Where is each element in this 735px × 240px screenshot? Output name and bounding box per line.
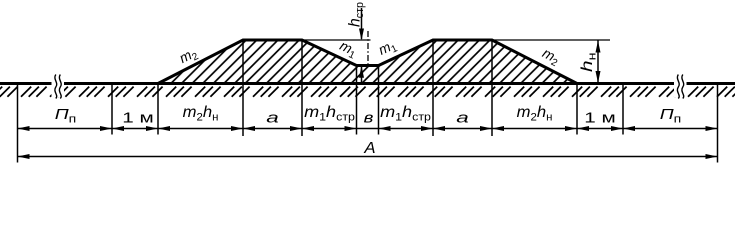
break symbol right — [674, 74, 687, 99]
label Pp left — [55, 105, 77, 125]
extension line tick m1hstr/a right — [432, 40, 434, 136]
embankment profile outline — [158, 40, 577, 84]
svg-text:1 м: 1 м — [122, 109, 153, 126]
svg-text:в: в — [364, 109, 374, 126]
label a left — [266, 110, 279, 126]
dimension line row 1 — [18, 128, 718, 130]
label m2hn right — [517, 103, 553, 123]
extension line tick notch left — [356, 66, 358, 135]
extension line tick notch right — [378, 66, 380, 135]
crest reference line left — [302, 39, 371, 41]
extension line tick crest left — [242, 40, 244, 136]
centerline dash-dot — [367, 31, 369, 67]
label m1hstr right — [380, 103, 431, 123]
label A — [363, 139, 375, 157]
label 1 m right — [584, 109, 615, 126]
ground line — [0, 82, 735, 85]
notch bottom up arrow — [359, 66, 364, 83]
ground hatching — [0, 87, 735, 97]
break symbol left — [52, 74, 65, 99]
svg-text:А: А — [363, 139, 375, 157]
extension line tick toe right — [576, 84, 578, 135]
h_str dimension arrow — [359, 8, 364, 41]
label 1 m left — [122, 109, 153, 126]
svg-text:1 м: 1 м — [584, 109, 615, 126]
label m1hstr left — [304, 103, 355, 123]
crest reference line right — [492, 39, 610, 41]
h_n dimension arrow — [596, 40, 601, 84]
dimension arrowheads row 1 — [18, 126, 718, 131]
label v center — [364, 109, 374, 126]
svg-text:а: а — [266, 110, 279, 126]
dimension line A — [18, 154, 718, 159]
extension line tick 1m/Pp right — [622, 84, 624, 135]
label a right — [456, 110, 469, 126]
svg-text:а: а — [456, 110, 469, 126]
extension line A left extension — [17, 84, 19, 163]
extension line tick 1m/m2hn left (toe) — [157, 84, 159, 135]
label Pp right — [660, 105, 682, 125]
extension line A right extension — [717, 84, 719, 163]
label m2hn left — [183, 103, 219, 123]
extension line tick crest right — [491, 40, 493, 136]
embankment fill hatched — [158, 40, 577, 84]
extension line tick a/m1hstr left — [301, 40, 303, 136]
extension line tick Pp/1m left — [111, 84, 113, 135]
